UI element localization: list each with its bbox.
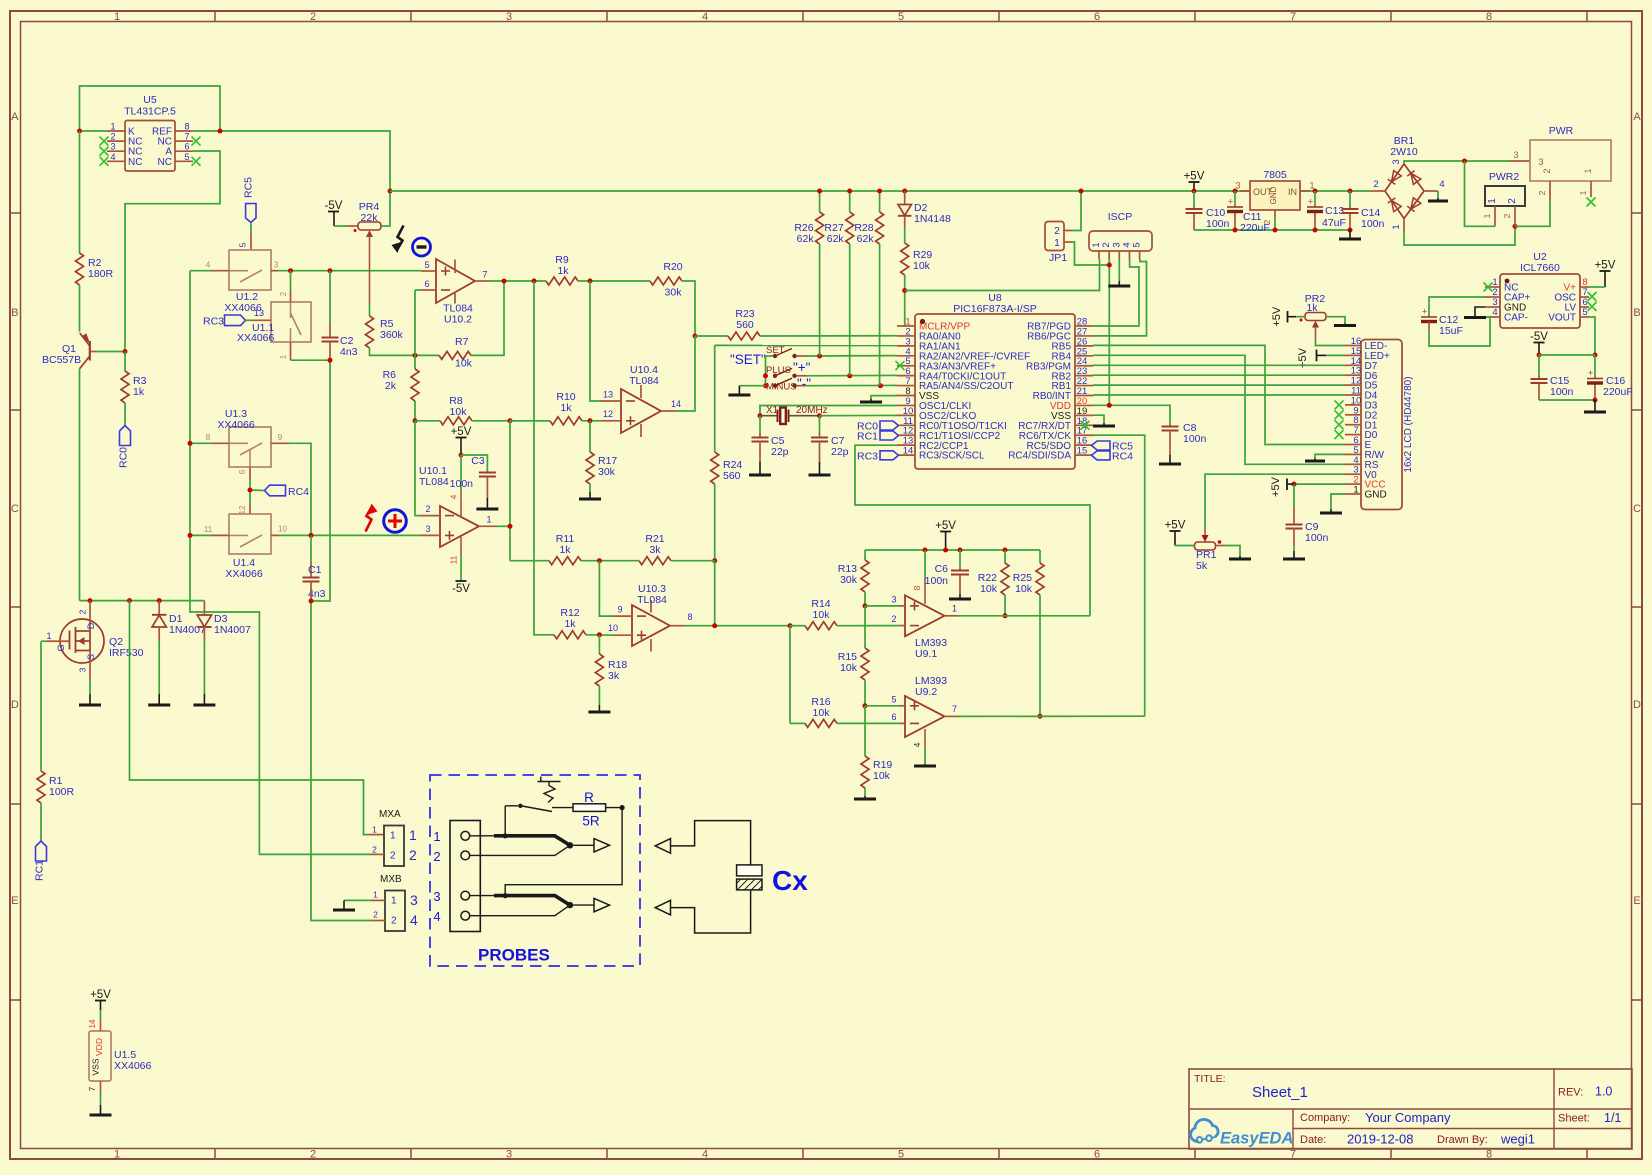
svg-text:C1: C1 [308, 564, 322, 576]
wire C7 top [819, 416, 821, 437]
capacitor C5 [752, 435, 789, 458]
svg-text:100n: 100n [1183, 433, 1207, 445]
svg-text:1: 1 [114, 1149, 120, 1161]
wire SET left col [766, 356, 773, 386]
svg-text:1: 1 [372, 825, 377, 835]
no-connect X U2 NC [1484, 283, 1493, 292]
svg-text:3: 3 [1235, 181, 1240, 191]
wire comparator rail [865, 549, 1040, 551]
wire R15 col [864, 606, 866, 648]
node R25 out [1038, 714, 1043, 719]
capacitor C7 [811, 435, 849, 458]
svg-text:14: 14 [88, 1019, 97, 1028]
svg-text:4: 4 [449, 494, 459, 499]
resistor R7 [439, 336, 473, 370]
svg-text:13: 13 [254, 308, 264, 318]
wire U9.2 pin4 stem [924, 764, 926, 765]
label quoted SET [730, 352, 766, 367]
svg-text:1: 1 [952, 604, 957, 614]
svg-text:Company:: Company: [1300, 1112, 1350, 1124]
svg-text:U9.1: U9.1 [915, 648, 937, 660]
wire R10 right [582, 420, 601, 422]
svg-text:20MHz: 20MHz [796, 405, 828, 416]
node C10 rail [1192, 189, 1197, 194]
wire U9.2 out [958, 715, 1145, 717]
svg-text:VSS: VSS [91, 1058, 101, 1075]
wire C9 top [1293, 484, 1295, 524]
resistor R18 [595, 654, 627, 686]
svg-text:1: 1 [391, 896, 397, 907]
wire U1.1 top pin2 [290, 271, 292, 302]
node R23 left [693, 334, 698, 339]
ground PR1 [1229, 558, 1251, 561]
wire pin5 row [865, 705, 900, 707]
wire R19 col [864, 706, 866, 756]
node U1.4 pin11 [188, 533, 193, 538]
svg-text:VDD: VDD [94, 1038, 104, 1056]
wire R17 col [589, 421, 591, 452]
svg-text:2: 2 [1373, 179, 1378, 190]
svg-text:"SET": "SET" [730, 352, 766, 367]
node C2 bottom [328, 358, 333, 363]
bridge rectifier BR1 2W10 [1371, 135, 1445, 232]
node C14 rail [1348, 189, 1353, 194]
svg-text:2: 2 [390, 851, 396, 862]
svg-text:5R: 5R [582, 814, 600, 829]
capacitor C3 [450, 455, 496, 490]
wire R2 to Q1 [79, 285, 81, 332]
node VCC [1292, 482, 1297, 487]
wire RC5 to U1.2 pin5 [239, 223, 252, 251]
net flag RC4 at U8 [1092, 450, 1134, 462]
svg-text:6: 6 [184, 142, 189, 152]
svg-text:RC3: RC3 [857, 450, 878, 462]
svg-text:XX4066: XX4066 [237, 332, 275, 344]
wire BR1 pin3 to PWR [1404, 161, 1530, 164]
svg-text:+: + [1308, 197, 1313, 207]
wire D3 bottom [203, 641, 205, 704]
wire R13 bottom [864, 592, 866, 606]
svg-text:1: 1 [1482, 213, 1492, 218]
svg-text:16x2 LCD (HD44780): 16x2 LCD (HD44780) [1403, 376, 1414, 472]
wire R8 right [472, 420, 550, 422]
ground VSS8 [860, 401, 882, 404]
svg-text:2: 2 [310, 11, 316, 23]
wire C11 leads [1234, 191, 1236, 230]
svg-text:100n: 100n [450, 478, 474, 490]
IC U2 ICL7660 [1485, 251, 1589, 328]
transistor Q2 IRF530 [46, 601, 143, 679]
ground PR2 [1334, 324, 1356, 327]
wire U10.1 pin2 col [415, 421, 421, 516]
node R22 out [1003, 613, 1008, 618]
power +5V at C3 [451, 426, 472, 455]
svg-text:Your Company: Your Company [1365, 1110, 1451, 1125]
node VDD iscp [1107, 403, 1112, 408]
svg-text:560: 560 [723, 470, 741, 482]
svg-text:5: 5 [1582, 307, 1587, 318]
svg-text:1N4148: 1N4148 [914, 213, 951, 225]
wire U1.3 pin6 node [250, 480, 264, 505]
svg-text:3k: 3k [649, 544, 661, 556]
node C13 rail [1313, 189, 1318, 194]
svg-text:4: 4 [912, 742, 922, 747]
svg-text:JP1: JP1 [1049, 252, 1067, 264]
op-amp U10.2 TL084 [421, 259, 490, 326]
svg-text:C: C [1633, 503, 1641, 515]
svg-text:RC1: RC1 [34, 860, 46, 881]
node 7805 gnd [1273, 228, 1278, 233]
wire R3 top [124, 352, 126, 372]
wire D2 to R29 [904, 227, 906, 243]
svg-text:Drawn By:: Drawn By: [1437, 1134, 1488, 1146]
svg-text:2: 2 [1502, 213, 1512, 218]
wire ISCP pin3 gnd [1118, 259, 1120, 285]
svg-text:7: 7 [184, 132, 189, 142]
svg-text:RC1: RC1 [857, 431, 878, 443]
svg-text:Cx: Cx [772, 865, 808, 896]
svg-text:+: + [1228, 197, 1233, 207]
wire R10 left [510, 420, 550, 422]
svg-text:D: D [11, 699, 19, 711]
wire BR1 pin4 gnd [1437, 191, 1439, 200]
svg-text:Sheet_1: Sheet_1 [1252, 1084, 1308, 1101]
svg-text:RC3/SCK/SCL: RC3/SCK/SCL [919, 451, 985, 462]
analog switch U1.3 XX4066 [206, 408, 289, 480]
wire R14 right [837, 625, 900, 627]
no-connect X RA3 [896, 361, 905, 370]
svg-text:1: 1 [114, 11, 120, 23]
svg-text:5: 5 [184, 152, 189, 162]
wire C2 bottom [311, 342, 330, 602]
op-amp U10.1 TL084 [419, 465, 497, 547]
wire R11 left [510, 560, 549, 562]
svg-text:2: 2 [310, 1149, 316, 1161]
node PLUS left [763, 373, 768, 378]
node ISCP jp1 join [1107, 263, 1112, 268]
svg-text:3: 3 [1391, 159, 1402, 164]
svg-text:B: B [11, 307, 18, 319]
capacitor C12 [1421, 307, 1463, 338]
connector PWR [1513, 125, 1611, 200]
svg-text:+5V: +5V [1271, 306, 1283, 327]
svg-text:11: 11 [204, 525, 213, 534]
resistor R15 [838, 648, 869, 680]
wire R28 top [879, 191, 881, 212]
wire R17 bottom [589, 484, 591, 498]
capacitor C10 [1186, 207, 1230, 230]
node U1.2 pin3 a [288, 268, 293, 273]
no-connect X pin2 U5 [100, 137, 109, 146]
svg-text:30k: 30k [598, 466, 616, 478]
connector JP1 [1045, 222, 1072, 265]
net flag RC5 at U8 [1092, 441, 1134, 453]
svg-text:R20: R20 [663, 261, 682, 273]
svg-text:1k: 1k [564, 618, 576, 630]
svg-text:1: 1 [390, 831, 396, 842]
svg-text:100R: 100R [49, 786, 75, 798]
probe connector [433, 821, 480, 932]
wire U9.1 out [958, 615, 1090, 617]
wire U9.2 pin4 [912, 729, 925, 764]
svg-text:C13: C13 [1325, 205, 1344, 217]
node C1 bottom [309, 599, 314, 604]
node R21 right [712, 558, 717, 563]
wire D1 bottom [158, 641, 160, 704]
svg-text:10k: 10k [913, 260, 931, 272]
svg-text:22p: 22p [831, 446, 849, 458]
label PROBES [478, 946, 550, 965]
svg-text:2: 2 [110, 132, 115, 142]
resistor R29 [901, 243, 933, 275]
power +5V at U1.5 [90, 989, 111, 1010]
diode D3 1N4007 [197, 601, 251, 641]
ground BR1 [1428, 200, 1448, 203]
svg-text:100n: 100n [1361, 218, 1385, 230]
wire ISCP pin4 to RB7 [1093, 259, 1139, 326]
switch SET [766, 345, 806, 358]
svg-text:2: 2 [891, 614, 896, 624]
svg-text:10k: 10k [840, 662, 858, 674]
node U1.2 pin3 b [328, 268, 333, 273]
wire R8 left lead [415, 420, 440, 422]
svg-text:C6: C6 [935, 563, 949, 575]
svg-text:U5: U5 [143, 94, 157, 106]
svg-text:62k: 62k [827, 233, 845, 245]
svg-text:+5V: +5V [935, 520, 956, 532]
svg-text:4: 4 [1439, 179, 1444, 190]
node R9 right [588, 279, 593, 284]
resistor R10 [550, 391, 582, 425]
svg-text:1: 1 [373, 890, 378, 900]
analog switch U1.2 XX4066 [206, 250, 279, 314]
wire MXB pin1 gnd [344, 900, 385, 909]
svg-text:15: 15 [1077, 446, 1088, 457]
svg-text:10k: 10k [813, 707, 831, 719]
svg-text:220uF: 220uF [1603, 386, 1633, 398]
net flag RC0 at U8 [857, 421, 899, 433]
capacitor C1 [303, 564, 326, 600]
wire -5V bottom row [1539, 399, 1595, 401]
wire R27 top [849, 191, 851, 212]
svg-text:4: 4 [702, 11, 708, 23]
node R8 right [508, 418, 513, 423]
wire U1.5 vss [88, 1081, 101, 1114]
svg-text:-5V: -5V [1530, 331, 1548, 343]
wire JP1 pin2 to rail [1072, 191, 1081, 231]
svg-text:9: 9 [617, 605, 622, 615]
svg-text:30k: 30k [840, 574, 858, 586]
svg-text:5: 5 [239, 242, 248, 247]
no-connect X U2 LV [1588, 302, 1597, 311]
svg-text:+5V: +5V [1595, 260, 1616, 272]
wire RB4 to RS [1093, 355, 1345, 464]
probe resistor R 5R [505, 777, 625, 896]
ground RW [1305, 460, 1325, 463]
svg-text:A: A [11, 111, 19, 123]
wire pin3 row [865, 605, 900, 607]
svg-text:6: 6 [1094, 1149, 1100, 1161]
svg-text:D: D [1633, 699, 1641, 711]
svg-text:4: 4 [1492, 307, 1497, 318]
svg-text:R: R [584, 790, 594, 805]
wire R28 bottom [879, 244, 881, 386]
wire C10 leads [1193, 191, 1195, 230]
svg-text:U10.2: U10.2 [444, 314, 472, 326]
no-connect X PWR pin1 [1587, 198, 1596, 207]
capacitor C9 [1286, 521, 1329, 544]
wire R3 to RC0 [124, 403, 126, 426]
svg-text:2: 2 [391, 916, 397, 927]
ground R18 [588, 711, 610, 714]
svg-text:3: 3 [274, 261, 279, 270]
svg-text:14: 14 [903, 446, 914, 457]
wire U10.4 out [676, 336, 695, 411]
ground LCD [1320, 512, 1342, 515]
wire MINUS to RA5 [806, 384, 897, 386]
svg-text:U9.2: U9.2 [915, 686, 937, 698]
wire V0 to PR1 [1205, 474, 1345, 527]
svg-text:10: 10 [278, 525, 287, 534]
wire pin13 col [590, 281, 601, 401]
wire C14 gnd stem [1349, 230, 1351, 238]
capacitor C15 [1531, 375, 1574, 398]
node MCLR [902, 288, 907, 293]
annotation plus circle [384, 510, 407, 533]
node U10.1 out [508, 524, 513, 529]
wire R25 top [1039, 550, 1041, 563]
svg-text:2: 2 [1507, 198, 1518, 204]
node X1 left [758, 413, 763, 418]
wire U10.2 out row [490, 280, 546, 282]
node R26 rail [817, 189, 822, 194]
wire ISCP pin2 col [1108, 259, 1110, 405]
node C13 gnd [1313, 228, 1318, 233]
wire C5 top [759, 416, 761, 437]
svg-text:MXA: MXA [379, 809, 401, 820]
wire VSS19 gnd [1093, 415, 1104, 425]
op-amp U5 TL431CP.5 [107, 94, 193, 171]
switch MINUS [766, 376, 811, 393]
wire VCC row [1294, 483, 1345, 485]
svg-text:10k: 10k [450, 406, 468, 418]
resistor R9 [546, 254, 578, 285]
node out2 b [532, 279, 537, 284]
svg-text:2019-12-08: 2019-12-08 [1347, 1132, 1414, 1147]
svg-text:7: 7 [482, 270, 487, 280]
wire R15 bottom [864, 680, 866, 706]
node SET RA2 [817, 354, 822, 359]
capacitor C6 [925, 563, 969, 587]
node -5V left [1537, 353, 1542, 358]
ground MXB [333, 909, 355, 912]
svg-text:+5V: +5V [451, 426, 472, 438]
svg-text:-5V: -5V [325, 200, 343, 212]
wire probes to MXA1 [130, 601, 385, 835]
node C11 gnd [1233, 228, 1238, 233]
svg-text:13: 13 [603, 390, 613, 400]
svg-text:62k: 62k [857, 233, 875, 245]
analog switch U1.1 XX4066 [237, 291, 311, 359]
transistor Q1 BC557B [42, 333, 96, 369]
svg-text:10k: 10k [813, 609, 831, 621]
wire PWR2 net [1465, 161, 1496, 226]
op-amp U10.3 TL084 [608, 583, 693, 652]
svg-text:1: 1 [1578, 190, 1588, 195]
svg-text:GND: GND [1365, 490, 1387, 501]
IC U1.5 XX4066 [89, 1031, 152, 1081]
net flag RC1 [34, 841, 47, 881]
ground C9 [1283, 558, 1305, 561]
svg-text:1/1: 1/1 [1604, 1111, 1621, 1125]
node U9.2 pin5 [863, 703, 868, 708]
op-amp U10.4 TL084 [601, 364, 681, 437]
svg-text:2: 2 [373, 910, 378, 920]
svg-text:3k: 3k [608, 670, 620, 682]
svg-text:10k: 10k [873, 770, 891, 782]
node PWR2 pin2 [1513, 224, 1518, 229]
wire R29 bottom [904, 275, 906, 326]
connector ISCP [1089, 211, 1152, 259]
power -5V at U2 [1530, 331, 1548, 355]
EasyEDA logo [1191, 1119, 1294, 1147]
resistor R28 [854, 212, 883, 245]
svg-text:2: 2 [1054, 226, 1060, 237]
resistor R19 [861, 756, 892, 788]
node -5V right [1593, 353, 1598, 358]
wire PR1 right gnd [1216, 546, 1241, 559]
svg-text:PWR2: PWR2 [1489, 171, 1519, 183]
ground ISCP [1108, 285, 1130, 288]
resistor R2 [76, 253, 114, 285]
svg-text:E: E [11, 895, 18, 907]
svg-text:R7: R7 [455, 336, 469, 348]
node rail r22 [1003, 548, 1008, 553]
wire U1.2 pin4 column [190, 271, 370, 855]
node U10.3 out [712, 623, 717, 628]
svg-text:1: 1 [1583, 168, 1593, 173]
wire R18 col [598, 635, 600, 654]
capacitor C8 [1162, 422, 1207, 445]
svg-text:B: B [1633, 307, 1640, 319]
wire PR2 right gnd [1326, 317, 1345, 325]
svg-text:2: 2 [1537, 190, 1547, 195]
svg-text:10: 10 [608, 623, 618, 633]
wire 7805 gnd [1274, 218, 1276, 230]
svg-text:4: 4 [206, 261, 211, 270]
no-connect X pin4 U5 [100, 157, 109, 166]
no-connect X D0 [1335, 430, 1344, 439]
svg-text:1: 1 [1353, 485, 1358, 496]
svg-text:Date:: Date: [1300, 1134, 1326, 1146]
power -5V at U10.1 [452, 581, 470, 595]
wire ISCP pin5 to RB6 [1093, 259, 1147, 336]
ground C3 [476, 508, 498, 511]
resistor R8 [440, 395, 472, 425]
svg-text:22p: 22p [771, 446, 789, 458]
wire R7 right up to out [471, 281, 504, 355]
node D1 top [157, 598, 162, 603]
svg-text:ISCP: ISCP [1108, 211, 1133, 223]
svg-text:PIC16F873A-I/SP: PIC16F873A-I/SP [953, 303, 1036, 315]
annotation minus circle [413, 238, 431, 256]
node PLUS RA4 [847, 373, 852, 378]
wire -5V row [1539, 354, 1595, 356]
power +5V at VCC [1270, 476, 1294, 497]
crystal X1 20MHz [760, 405, 828, 424]
wire VOUT [1589, 317, 1595, 355]
wire U9.1 pin8 [912, 550, 925, 604]
